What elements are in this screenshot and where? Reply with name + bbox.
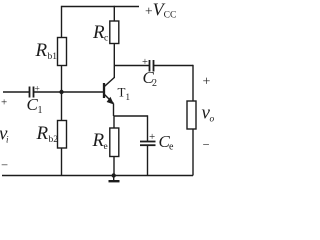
wire RL to ground rail <box>192 129 194 176</box>
resistor RL (load, unlabeled) <box>187 101 196 129</box>
svg-text:o: o <box>210 115 215 125</box>
svg-text:+: + <box>203 75 211 90</box>
capacitor C1 <box>27 85 43 117</box>
wire input to C1 <box>3 91 30 93</box>
node ground junction <box>112 173 116 177</box>
power rail +VCC <box>62 6 140 8</box>
wire Rc to collector <box>113 44 115 79</box>
wire Re to ground rail <box>113 157 115 176</box>
ground rail <box>2 175 193 177</box>
svg-text:b2: b2 <box>49 135 59 145</box>
svg-text:e: e <box>104 142 108 152</box>
svg-text:+: + <box>1 97 7 109</box>
svg-text:−: − <box>203 137 210 151</box>
node base junction <box>59 90 63 94</box>
wire Rb2 to ground rail <box>61 148 63 176</box>
transistor T1 <box>104 78 130 105</box>
capacitor C2 <box>142 57 157 89</box>
svg-text:T: T <box>118 85 126 100</box>
wire Ce top <box>147 115 149 141</box>
svg-text:R: R <box>35 40 48 61</box>
svg-text:e: e <box>169 142 174 153</box>
svg-text:1: 1 <box>126 92 131 102</box>
svg-text:+: + <box>142 57 148 68</box>
wire C1 to base <box>34 91 105 93</box>
wire collector tap to C2 <box>114 65 149 67</box>
wire C2 to output branch <box>154 65 194 67</box>
wire emitter node to Re <box>113 116 115 128</box>
resistor Rb2 <box>36 121 67 149</box>
svg-text:b1: b1 <box>48 52 58 62</box>
wire emitter down <box>113 104 115 117</box>
svg-text:+: + <box>35 85 40 95</box>
svg-text:R: R <box>36 123 49 144</box>
wire emitter node to Ce <box>114 115 148 117</box>
capacitor Ce <box>140 131 174 153</box>
svg-text:1: 1 <box>38 105 43 116</box>
wire base node to Rb2 <box>61 92 63 121</box>
resistor Rc <box>92 21 119 44</box>
resistor Rb1 <box>35 38 67 66</box>
svg-text:−: − <box>1 158 8 172</box>
wire Rb1 top <box>61 6 63 38</box>
svg-text:2: 2 <box>152 78 157 89</box>
wire Rc top stub <box>113 6 115 21</box>
resistor Re <box>92 128 119 157</box>
wire Rb1 to base node <box>61 66 63 93</box>
svg-text:i: i <box>6 135 9 145</box>
svg-text:+: + <box>149 131 155 143</box>
svg-text:+VCC: +VCC <box>145 0 176 21</box>
wire Ce to ground rail <box>147 145 149 175</box>
wire output branch down <box>192 65 194 101</box>
svg-text:c: c <box>104 34 108 44</box>
ground <box>109 176 120 182</box>
